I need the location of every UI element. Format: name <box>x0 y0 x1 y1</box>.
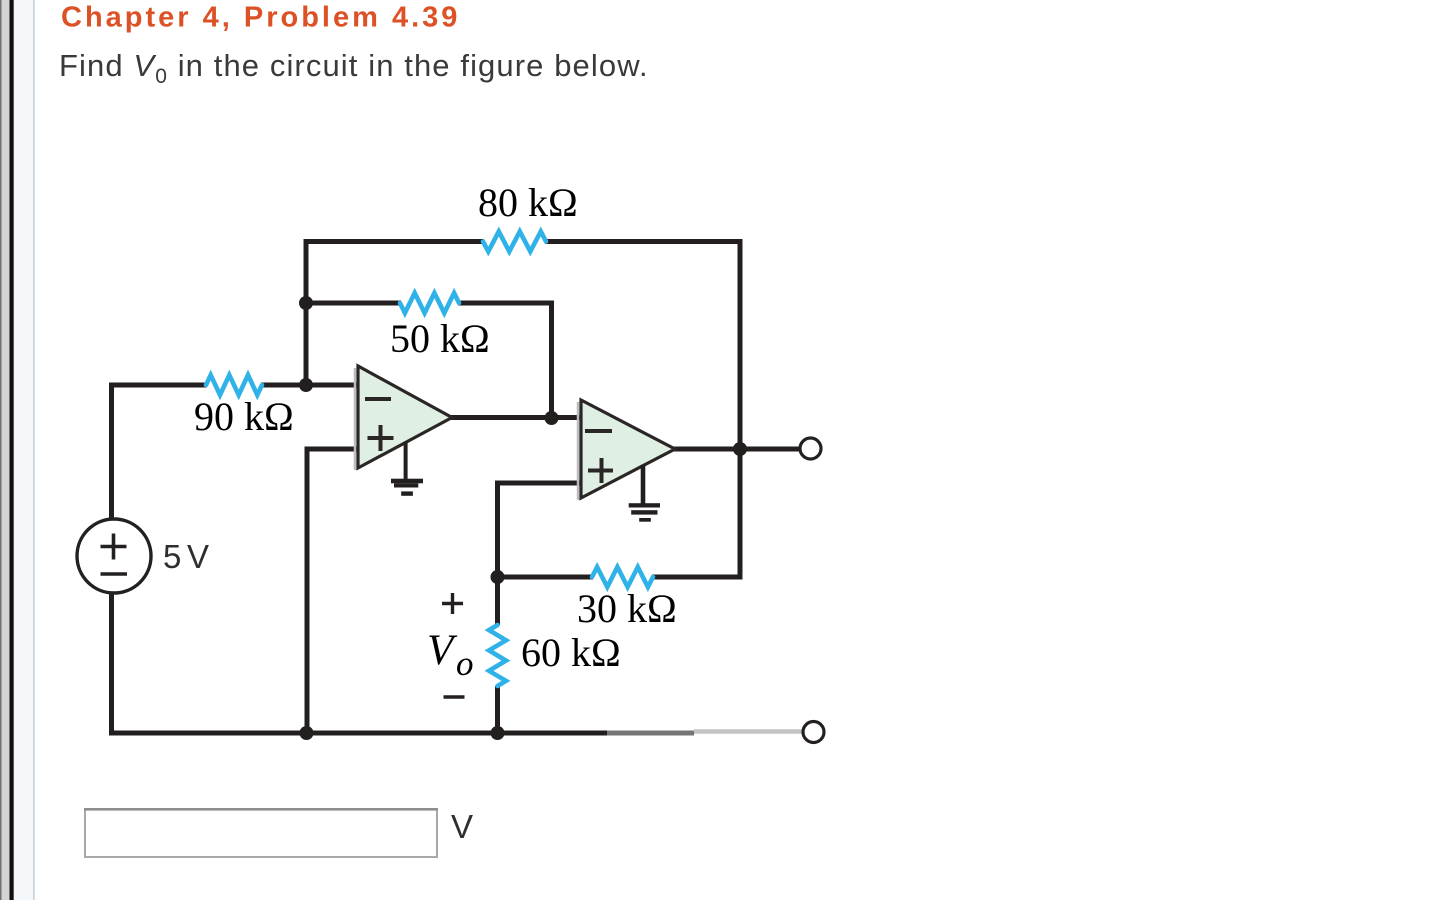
svg-text:5: 5 <box>163 538 181 575</box>
svg-text:V: V <box>451 808 473 845</box>
svg-text:30 kΩ: 30 kΩ <box>577 586 677 631</box>
svg-text:Find V0 in the circuit in the: Find V0 in the circuit in the figure bel… <box>59 48 649 88</box>
svg-text:90 kΩ: 90 kΩ <box>194 394 294 439</box>
svg-text:50 kΩ: 50 kΩ <box>390 316 490 361</box>
svg-text:V: V <box>187 538 209 575</box>
svg-text:60 kΩ: 60 kΩ <box>521 630 621 675</box>
svg-text:Chapter 4, Problem 4.39: Chapter 4, Problem 4.39 <box>61 2 460 34</box>
svg-text:80 kΩ: 80 kΩ <box>478 180 578 225</box>
svg-text:o: o <box>456 644 474 683</box>
